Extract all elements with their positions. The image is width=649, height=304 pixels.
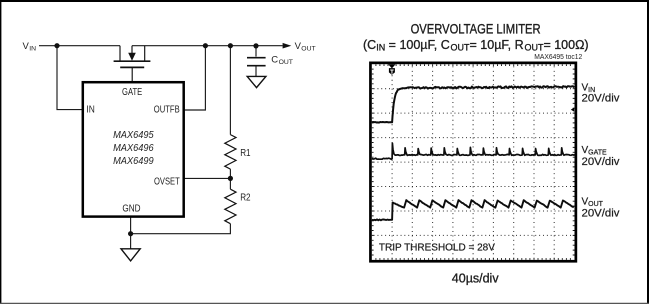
svg-text:20V/div: 20V/div	[582, 93, 621, 105]
svg-text:MAX6495 toc12: MAX6495 toc12	[534, 54, 582, 61]
wire COUT bottom lead	[255, 66, 257, 77]
trace VGATE	[372, 143, 575, 159]
svg-text:OVSET: OVSET	[154, 177, 180, 188]
wire R1 bottom to node	[229, 169, 231, 178]
wire R2 bottom to ground rail	[131, 224, 231, 234]
svg-text:MAX6495: MAX6495	[113, 130, 154, 141]
wire GND pin lead	[130, 217, 132, 234]
ground symbol below GND pin	[121, 249, 140, 261]
svg-text:OUT: OUT	[301, 46, 315, 53]
trace VOUT	[372, 200, 574, 220]
scope graticule dots	[374, 66, 571, 258]
svg-text:R1: R1	[240, 148, 251, 159]
trigger level arrow	[571, 108, 574, 112]
svg-text:IN: IN	[29, 46, 36, 53]
svg-text:20V/div: 20V/div	[582, 208, 621, 220]
node VIN input wire	[39, 45, 120, 47]
wire COUT top lead	[255, 46, 257, 57]
wire rail to R1 top	[229, 46, 231, 135]
svg-text:OUTFB: OUTFB	[154, 105, 180, 116]
wire GND node to ground symbol	[130, 234, 132, 249]
wire top rail from MOSFET source to VOUT	[132, 45, 283, 47]
svg-text:MAX6499: MAX6499	[113, 156, 154, 167]
trigger position marker T	[388, 64, 395, 68]
node junction GND rail	[128, 231, 133, 236]
op-amp U1 IC box MAX6495/6/9	[83, 82, 184, 216]
wire OVSET to R1/R2 node	[184, 177, 230, 179]
trace VIN	[372, 86, 574, 123]
node junction R1/R2 OVSET	[228, 176, 233, 181]
svg-text:20V/div: 20V/div	[582, 156, 621, 168]
svg-text:40µs/div: 40µs/div	[452, 272, 499, 286]
svg-text:OVERVOLTAGE LIMITER: OVERVOLTAGE LIMITER	[411, 22, 541, 37]
node junction OUTFB rail	[203, 43, 208, 48]
capacitor COUT plates	[247, 58, 266, 66]
resistor R1	[225, 135, 236, 170]
ground symbol below COUT	[247, 76, 266, 87]
svg-text:GND: GND	[122, 204, 140, 215]
resistor R2	[225, 189, 236, 224]
wire node to R2 top	[229, 178, 231, 189]
node junction COUT rail	[253, 43, 258, 48]
svg-text:GATE: GATE	[122, 87, 142, 98]
svg-text:MAX6496: MAX6496	[113, 143, 154, 154]
svg-text:R2: R2	[240, 193, 251, 204]
svg-text:C: C	[271, 55, 278, 66]
transistor Q1 N-channel MOSFET	[114, 46, 151, 82]
wire OUTFB branch	[184, 46, 205, 110]
node junction at VIN	[54, 43, 59, 48]
scope edge ticks	[372, 64, 575, 260]
svg-text:IN: IN	[86, 105, 94, 116]
VOUT output arrow	[283, 43, 292, 49]
svg-text:(CIN = 100µF, COUT= 10µF, ROUT: (CIN = 100µF, COUT= 10µF, ROUT= 100Ω)	[363, 38, 589, 53]
svg-text:OUT: OUT	[279, 59, 293, 66]
node junction R1 rail	[228, 43, 233, 48]
wire IN branch from VIN junction to IN pin	[57, 46, 83, 110]
scope plot frame	[370, 63, 575, 261]
svg-text:TRIP THRESHOLD = 28V: TRIP THRESHOLD = 28V	[379, 243, 495, 254]
